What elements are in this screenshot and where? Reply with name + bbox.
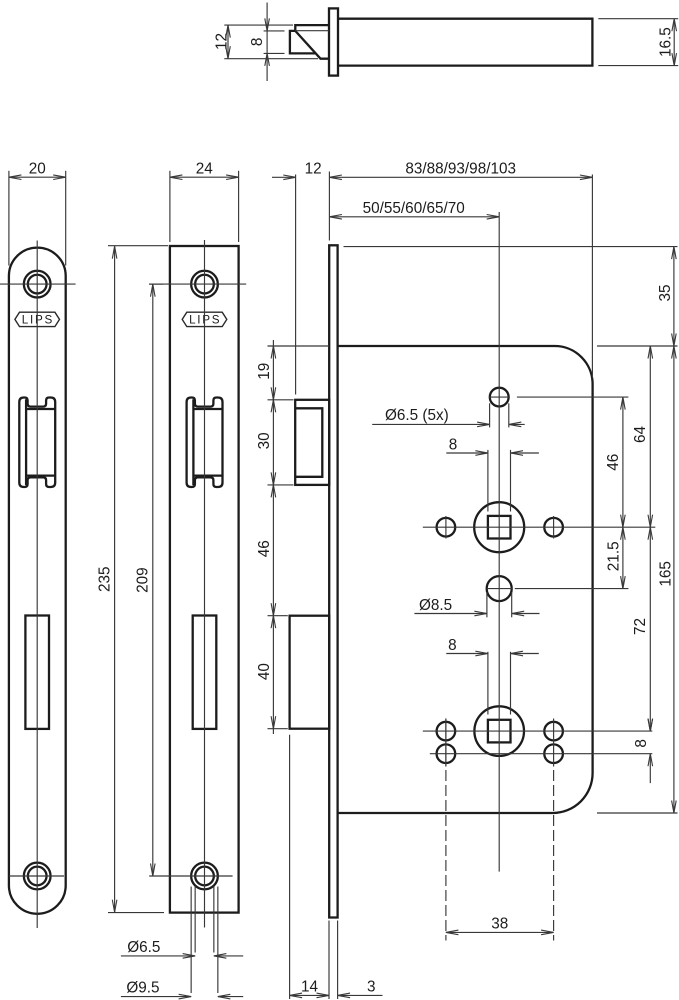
svg-text:38: 38 <box>491 916 508 933</box>
lower spindle slot lines <box>488 652 511 715</box>
dimension 8 upper spindle slot <box>446 436 539 455</box>
extension faceplate left bottom <box>328 921 330 1000</box>
svg-text:30: 30 <box>256 432 273 449</box>
dimension 64 case top to follower <box>632 346 653 527</box>
svg-text:235: 235 <box>96 566 113 592</box>
dimension 38 fixing hole spacing <box>446 916 554 935</box>
latch bolt top view <box>290 25 329 59</box>
cylinder hole 8.5 <box>487 576 512 601</box>
faceplate B vertical center line <box>204 240 206 928</box>
upper left fixing hole <box>437 518 456 537</box>
svg-text:46: 46 <box>605 454 622 471</box>
dimension 19 case top to latch <box>256 340 276 400</box>
svg-text:165: 165 <box>657 561 674 587</box>
extension latch tip bottom <box>289 735 291 999</box>
svg-text:14: 14 <box>301 979 319 996</box>
extension line 38 right dashed <box>553 770 555 941</box>
svg-text:16.5: 16.5 <box>658 27 675 57</box>
dimension 235 plate height <box>96 246 168 913</box>
lower right fixing holes <box>544 722 563 763</box>
lower holes row center line <box>430 753 653 755</box>
dimension diameter 6.5 5x <box>372 407 525 427</box>
dimension 14 latch protrusion <box>290 979 329 998</box>
dimension 16.5 case depth <box>598 19 678 66</box>
svg-text:8: 8 <box>633 739 650 748</box>
faceplate B top hole center line <box>149 283 246 285</box>
faceplate B outline <box>170 246 239 913</box>
svg-text:83/88/93/98/103: 83/88/93/98/103 <box>405 161 516 178</box>
dimension 3 faceplate thickness <box>338 979 383 998</box>
chain extension latch bottom <box>268 484 294 486</box>
faceplate A deadbolt cutout <box>25 616 49 729</box>
lower follower hub <box>474 706 524 756</box>
svg-text:24: 24 <box>196 161 214 178</box>
svg-text:72: 72 <box>632 618 649 635</box>
main vertical center line <box>498 212 500 872</box>
extension faceplate top right <box>344 246 678 248</box>
upper follower horizontal center line <box>423 526 656 528</box>
svg-text:21.5: 21.5 <box>606 541 623 571</box>
faceplate B bottom hole center line <box>149 875 232 877</box>
chain extension latch top <box>268 399 294 401</box>
dimension diameter 6.5 screw hole <box>121 887 243 959</box>
dimension 12 latch thickness <box>213 25 318 59</box>
dimension 50-70 backset options <box>329 200 499 219</box>
lock case outline <box>338 346 593 813</box>
faceplate A vertical center line <box>36 241 38 929</box>
svg-text:Ø6.5 (5x): Ø6.5 (5x) <box>385 407 449 424</box>
top hole center tick <box>489 396 510 398</box>
faceplate B deadbolt cutout <box>193 616 217 729</box>
dimension diameter 9.5 countersink <box>121 887 243 999</box>
deadbolt front view <box>290 616 330 729</box>
dimension 72 follower spacing <box>632 527 652 731</box>
lock case top view faceplate <box>329 8 338 75</box>
svg-text:40: 40 <box>256 663 273 680</box>
svg-text:12: 12 <box>305 161 322 178</box>
extension faceplate right bottom <box>337 921 339 1000</box>
svg-text:12: 12 <box>213 33 230 50</box>
dimension 83-103 case depth options <box>329 161 592 378</box>
upper spindle slot lines <box>488 450 511 512</box>
faceplate A top screw hole <box>24 271 51 298</box>
faceplate A latch cutout <box>19 398 55 488</box>
upper right fixing hole <box>544 518 563 537</box>
lower left fixing holes <box>437 722 456 763</box>
svg-text:209: 209 <box>135 567 152 593</box>
LIPS logo badge B <box>182 312 227 326</box>
dimension 46 top hole to follower <box>605 397 625 527</box>
dimension 46 latch to deadbolt <box>256 485 276 616</box>
faceplate A bottom hole center line <box>9 875 64 877</box>
extension top hole right <box>517 396 629 398</box>
lower side holes center ticks <box>446 719 554 767</box>
cylinder hole center tick <box>487 588 513 590</box>
LIPS logo badge A <box>15 312 60 326</box>
extension case bottom right <box>597 812 678 814</box>
svg-text:20: 20 <box>29 161 46 178</box>
lower follower horizontal center line <box>423 730 653 732</box>
extension line 38 left dashed <box>445 719 447 941</box>
faceplate B latch cutout <box>187 398 223 488</box>
svg-text:Ø8.5: Ø8.5 <box>419 597 452 614</box>
dimension 40 deadbolt height <box>256 616 276 734</box>
dimension 8 lower holes spacing right <box>633 719 653 784</box>
dimension 165 case height <box>657 346 676 813</box>
chain extension deadbolt bottom <box>268 728 288 730</box>
faceplate A outline rounded <box>9 248 66 914</box>
svg-text:8: 8 <box>448 637 457 654</box>
upper side holes center ticks <box>446 516 554 539</box>
dimension 21.5 follower to cylinder <box>606 527 626 588</box>
dimension 8 latch flat <box>249 3 284 82</box>
chain extension deadbolt top <box>268 615 288 617</box>
extension case top right <box>597 345 678 347</box>
latch bolt front view <box>295 400 329 485</box>
dimension 24 plate B width <box>170 161 239 243</box>
dimension 209 screw hole spacing <box>135 284 164 876</box>
chain extension case top <box>268 345 330 347</box>
svg-text:LIPS: LIPS <box>189 314 221 327</box>
svg-text:LIPS: LIPS <box>22 314 54 327</box>
svg-text:3: 3 <box>367 979 376 996</box>
faceplate A top hole center line <box>0 283 76 285</box>
dimension 12 faceplate overhang <box>272 161 329 395</box>
svg-text:8: 8 <box>249 38 266 47</box>
svg-text:64: 64 <box>632 426 649 444</box>
upper follower hub <box>474 502 524 552</box>
svg-text:35: 35 <box>657 284 674 301</box>
faceplate B top screw hole <box>191 271 218 298</box>
dimension 8 lower spindle slot <box>446 637 539 656</box>
dimension 20 plate A width <box>9 161 66 266</box>
lock case top view body <box>338 19 592 66</box>
svg-text:Ø6.5: Ø6.5 <box>127 939 160 956</box>
svg-text:50/55/60/65/70: 50/55/60/65/70 <box>363 200 465 217</box>
svg-text:8: 8 <box>449 436 458 453</box>
svg-text:19: 19 <box>256 363 273 380</box>
dimension diameter 8.5 cylinder hole <box>414 597 539 616</box>
svg-text:Ø9.5: Ø9.5 <box>126 980 159 997</box>
cylinder hole edge extension lines <box>487 592 512 617</box>
svg-text:46: 46 <box>256 540 273 557</box>
faceplate B bottom screw hole <box>191 863 218 890</box>
dimension 30 latch height <box>256 400 276 485</box>
main faceplate edge strip <box>329 245 337 917</box>
faceplate A bottom screw hole <box>24 863 51 890</box>
dimension 35 faceplate to case top <box>657 247 676 346</box>
top hole edge extension lines <box>490 403 509 427</box>
extension cylinder hole right <box>515 588 629 590</box>
top fixing hole <box>490 388 509 407</box>
